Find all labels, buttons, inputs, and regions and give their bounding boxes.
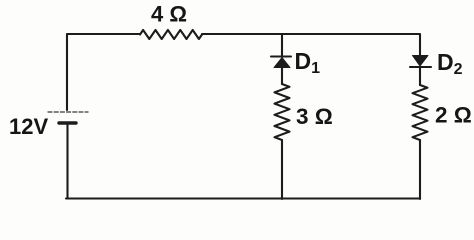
wire top-left (battery + to resistor) xyxy=(67,34,140,110)
battery V1 plate short xyxy=(59,121,76,124)
wire top (resistor to node A) xyxy=(202,33,282,35)
svg-text:2 Ω: 2 Ω xyxy=(435,103,472,128)
wire R2 to bottom xyxy=(281,140,283,199)
wire top (node A to right corner) xyxy=(282,34,420,55)
wire D2 cathode to resistor R3 xyxy=(419,67,421,85)
resistor R3 2-ohm zigzag xyxy=(413,85,428,140)
diode D1 triangle (points up) xyxy=(274,58,290,68)
svg-text:4 Ω: 4 Ω xyxy=(151,2,187,27)
wire left lower (battery - to bottom) xyxy=(66,123,68,199)
wire R3 to bottom xyxy=(419,140,421,199)
svg-text:D1: D1 xyxy=(295,48,321,77)
svg-text:D2: D2 xyxy=(437,49,463,78)
wire node A to diode D1 xyxy=(281,34,283,56)
resistor R1 4-ohm zigzag xyxy=(140,30,202,39)
svg-text:12V: 12V xyxy=(9,114,48,139)
battery V1 plate long xyxy=(48,111,88,113)
resistor R2 3-ohm zigzag xyxy=(275,84,290,140)
wire D1 anode to resistor R2 xyxy=(281,68,283,85)
diode D2 triangle (points down) xyxy=(413,56,429,67)
wire bottom xyxy=(66,197,420,199)
svg-text:3 Ω: 3 Ω xyxy=(296,104,333,129)
diode D2 cathode bar xyxy=(410,66,431,68)
diode D1 cathode bar xyxy=(271,55,291,57)
